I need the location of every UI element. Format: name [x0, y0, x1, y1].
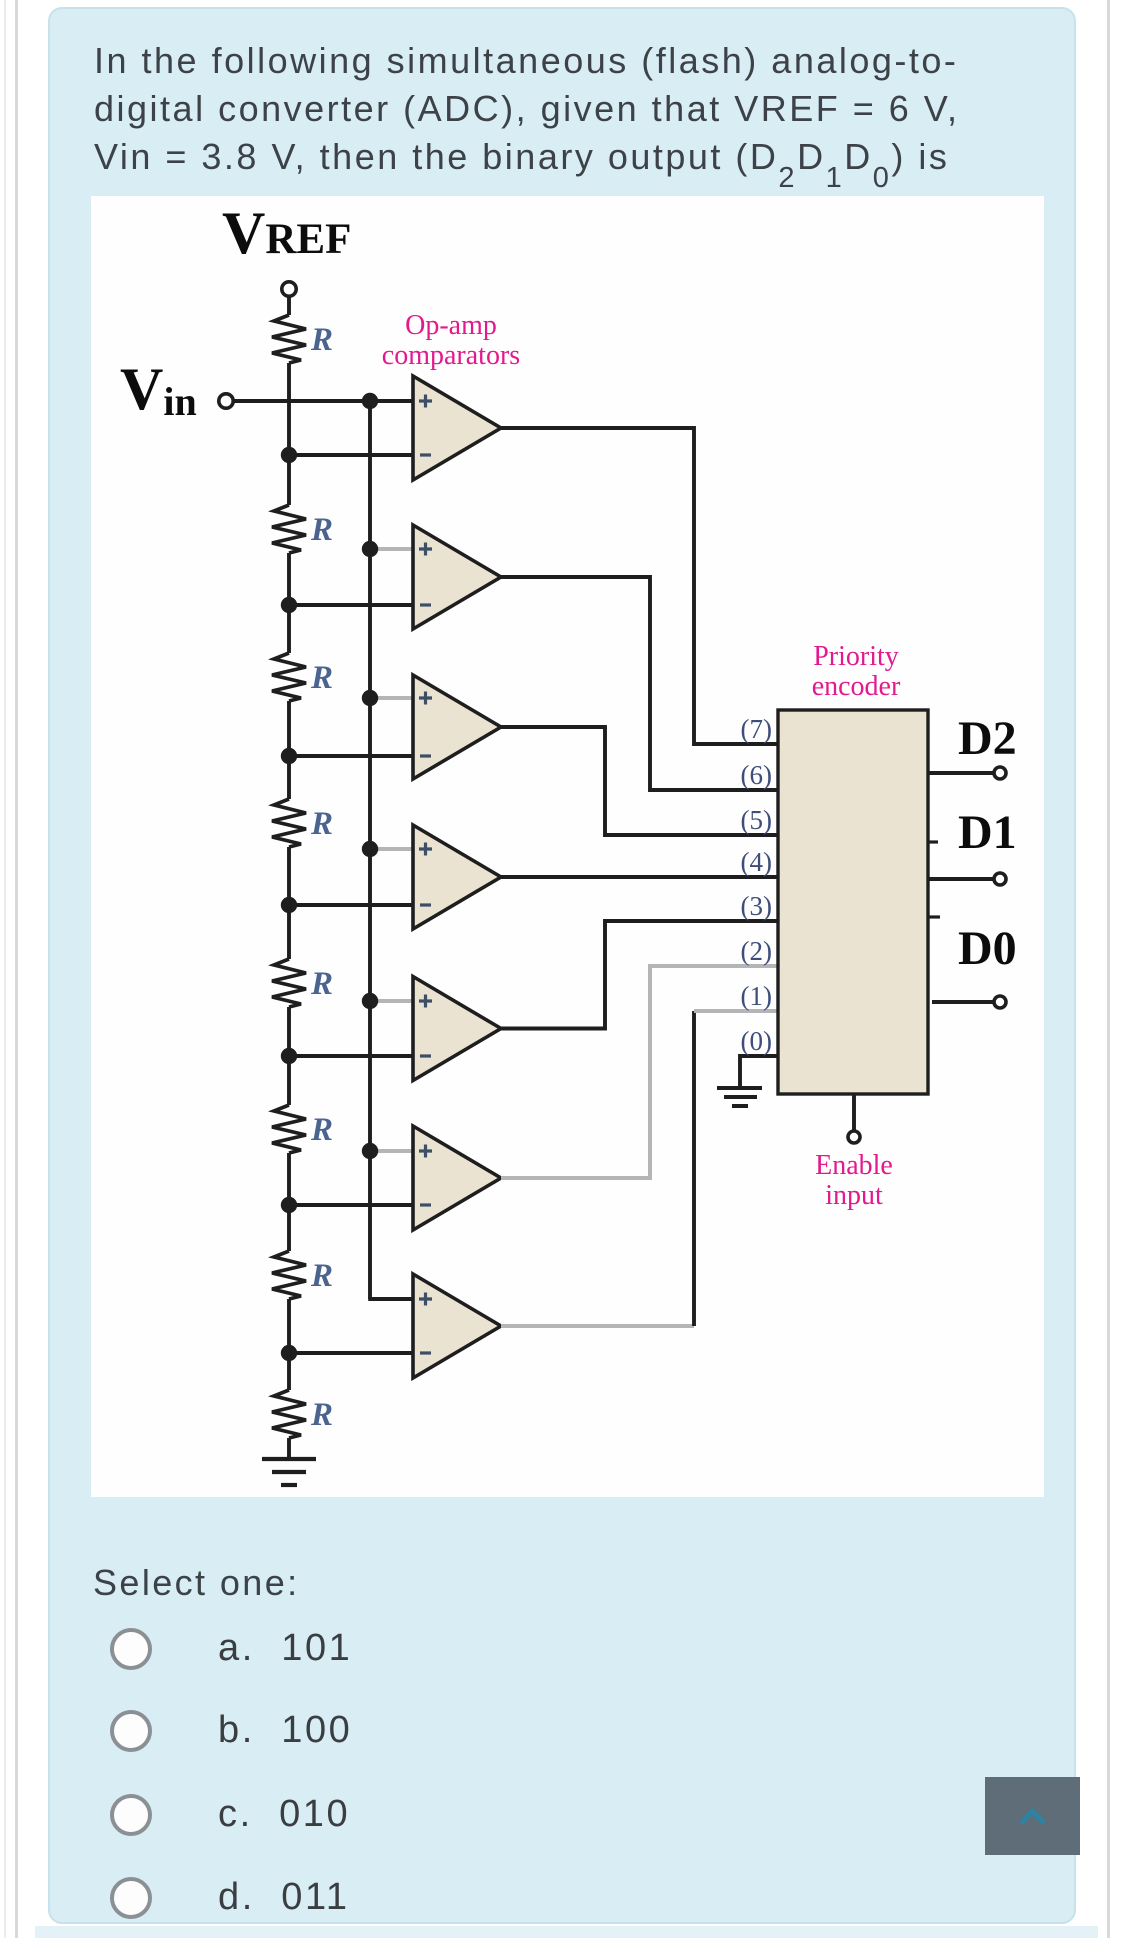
- wire U7 output horizontal: [501, 1324, 694, 1328]
- wire U7 to encoder input (1): [694, 1009, 778, 1013]
- svg-text:D0: D0: [958, 922, 1017, 975]
- svg-text:VREF: VREF: [222, 200, 351, 266]
- wire bus to comparator 2 + input: [376, 547, 413, 551]
- svg-text:Op-amp: Op-amp: [405, 310, 497, 341]
- wire bus to comparator 4 + input: [376, 847, 413, 851]
- svg-text:(1): (1): [741, 981, 772, 1011]
- svg-text:encoder: encoder: [812, 671, 901, 702]
- svg-text:Priority: Priority: [813, 641, 899, 672]
- left page rule 1: [4, 0, 6, 1938]
- wire U4 output to encoder input (4): [501, 875, 778, 879]
- wire bus to comparator 5 + input: [376, 999, 413, 1003]
- svg-text:R: R: [310, 660, 333, 696]
- select one prompt: [93, 1562, 300, 1604]
- wire VREF terminal to R1: [287, 296, 291, 316]
- wire U7 vertical riser: [692, 1011, 696, 1326]
- svg-text:R: R: [310, 1258, 333, 1294]
- Vin terminal: [219, 394, 233, 408]
- radio option c: [110, 1794, 152, 1836]
- wire bus to comparator 3 + input: [376, 696, 413, 700]
- wire ladder tap to comparator 3 - input: [289, 754, 413, 758]
- radio option b: [110, 1710, 152, 1752]
- node bus tap 6: [362, 1143, 378, 1159]
- node ladder tap 3: [281, 748, 297, 764]
- resistor R1: [272, 315, 306, 363]
- wire encoder input (0) to ground: [740, 1056, 778, 1086]
- svg-text:(3): (3): [741, 891, 772, 921]
- node ladder tap 6: [281, 1197, 297, 1213]
- svg-text:R: R: [310, 512, 333, 548]
- D1 terminal: [994, 873, 1006, 885]
- right page rule: [1107, 0, 1110, 1938]
- wire bus elbow to comparator 7 + input: [368, 1297, 413, 1301]
- wire ladder tap to comparator 6 - input: [289, 1203, 413, 1207]
- wire ladder tap to comparator 1 - input: [289, 453, 413, 457]
- op-amp comparator U6: [413, 1126, 501, 1230]
- ladder wire segments: [287, 363, 291, 505]
- svg-text:(6): (6): [741, 760, 772, 790]
- scroll-to-top button: [985, 1777, 1080, 1855]
- stub on encoder right edge (D1): [929, 840, 938, 843]
- D0 terminal: [994, 996, 1006, 1008]
- resistor R4: [272, 799, 306, 847]
- left page rule 2: [15, 0, 18, 1938]
- node ladder tap 1: [281, 447, 297, 463]
- node ladder tap 2: [281, 597, 297, 613]
- enable terminal: [848, 1131, 860, 1143]
- circuit diagram area: [91, 196, 1044, 1497]
- resistor R6: [272, 1105, 306, 1153]
- wire ladder tap to comparator 2 - input: [289, 603, 413, 607]
- wire U5 output to encoder input (3): [501, 921, 778, 1029]
- resistor R3: [272, 653, 306, 701]
- wire U3 output to encoder input (5): [501, 727, 778, 835]
- op-amp comparator U5: [413, 977, 501, 1081]
- wire ladder tap to comparator 5 - input: [289, 1054, 413, 1058]
- svg-text:D1: D1: [958, 806, 1017, 859]
- svg-text:comparators: comparators: [382, 340, 520, 371]
- op-amp comparator U4: [413, 825, 501, 929]
- wire ladder tap to comparator 4 - input: [289, 903, 413, 907]
- node ladder tap 7: [281, 1345, 297, 1361]
- svg-text:D2: D2: [958, 712, 1017, 765]
- node bus tap 5: [362, 993, 378, 1009]
- node ladder tap 5: [281, 1048, 297, 1064]
- resistor R7: [272, 1251, 306, 1299]
- node Vin/bus junction: [362, 393, 378, 409]
- svg-text:(7): (7): [741, 714, 772, 744]
- node bus tap 2: [362, 541, 378, 557]
- svg-text:(2): (2): [741, 936, 772, 966]
- resistor R8: [272, 1390, 306, 1438]
- resistor R2: [272, 505, 306, 553]
- ground (ladder bottom): [262, 1457, 316, 1461]
- svg-text:Vin: Vin: [120, 356, 197, 424]
- VREF terminal: [282, 282, 296, 296]
- svg-text:(0): (0): [741, 1026, 772, 1056]
- node bus tap 4: [362, 841, 378, 857]
- ground (encoder input 0): [717, 1086, 762, 1090]
- wire U2 output to encoder input (6): [501, 577, 778, 790]
- svg-text:input: input: [825, 1180, 883, 1211]
- wire ladder tap to comparator 7 - input: [289, 1351, 413, 1355]
- wire U6 output to encoder input (2): [501, 966, 778, 1178]
- wire D0 output: [932, 1000, 994, 1004]
- svg-text:Enable: Enable: [815, 1150, 893, 1181]
- svg-text:R: R: [310, 966, 333, 1002]
- wire D2 output: [929, 771, 994, 775]
- question text: [94, 37, 1034, 181]
- wire D1 output: [929, 877, 994, 881]
- wire Vin bus (vertical): [368, 401, 372, 1299]
- wire U1 output to encoder input (7): [501, 428, 778, 744]
- wire enable input: [852, 1094, 856, 1131]
- D2 terminal: [994, 767, 1006, 779]
- svg-text:R: R: [310, 322, 333, 358]
- op-amp comparator U7: [413, 1274, 501, 1378]
- svg-text:(4): (4): [741, 847, 772, 877]
- radio option d: [110, 1877, 152, 1919]
- radio option a: [110, 1628, 152, 1670]
- svg-text:R: R: [310, 1112, 333, 1148]
- node ladder tap 4: [281, 897, 297, 913]
- stub on encoder right edge (D0): [929, 915, 940, 918]
- node bus tap 3: [362, 690, 378, 706]
- svg-text:(5): (5): [741, 805, 772, 835]
- resistor R5: [272, 959, 306, 1007]
- svg-text:R: R: [310, 1397, 333, 1433]
- next card strip: [35, 1926, 1098, 1938]
- wire Vin to comparator 1 + input: [233, 399, 414, 403]
- op-amp comparator U2: [413, 525, 501, 629]
- svg-text:R: R: [310, 806, 333, 842]
- op-amp comparator U1: [413, 376, 501, 480]
- priority encoder block: [778, 710, 928, 1094]
- op-amp comparator U3: [413, 675, 501, 779]
- wire bus to comparator 6 + input: [376, 1149, 413, 1153]
